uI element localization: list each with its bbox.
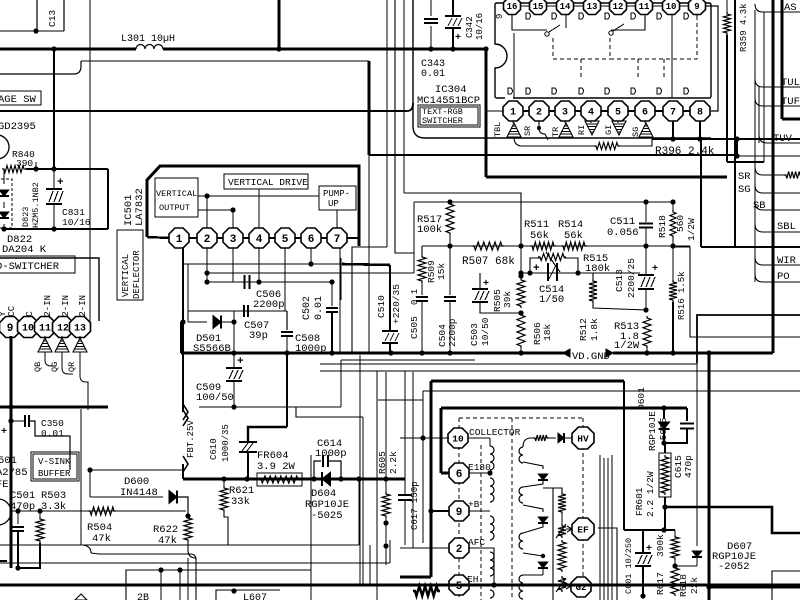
wire - y=400 stub bbox=[378, 399, 423, 401]
resistor R507 68k bbox=[472, 242, 504, 250]
svg-text:C617 150p: C617 150p bbox=[410, 481, 420, 530]
svg-text:+: + bbox=[455, 33, 461, 44]
wire - y=470 FBT link bbox=[90, 469, 183, 471]
svg-text:R518: R518 bbox=[657, 215, 668, 238]
wire - x=737 link bbox=[736, 139, 738, 156]
wire - pin9 to pin8 route x=718 bbox=[705, 6, 718, 111]
svg-text:9: 9 bbox=[456, 507, 463, 519]
wire - main +B bus y=49 bbox=[0, 48, 136, 51]
focus resistor chain upper bbox=[558, 492, 566, 514]
junction dot R513 top bbox=[643, 307, 648, 312]
svg-text:2.2k: 2.2k bbox=[388, 451, 399, 474]
capacitor C601 10/250 electrolytic bbox=[642, 530, 644, 552]
wire - IC304 top pin row bbox=[504, 5, 705, 7]
capacitor C506 2200p bbox=[244, 275, 246, 289]
capacitor C342 10/16 electrolytic bbox=[452, 0, 454, 15]
IC304 pin 4 (bottom) bbox=[581, 101, 601, 121]
wire - IC304 bottom pin row bbox=[503, 110, 710, 112]
svg-text:12: 12 bbox=[57, 324, 69, 335]
junction dot D501 branch bbox=[180, 319, 185, 324]
svg-text:4: 4 bbox=[588, 108, 594, 119]
IC304 pin 8 (bottom) bbox=[690, 101, 710, 121]
svg-text:18k: 18k bbox=[542, 324, 553, 341]
svg-text:D601: D601 bbox=[636, 387, 647, 410]
wire - thick y=587 to right bbox=[709, 586, 800, 589]
IC304 pin 3 (bottom) bbox=[555, 101, 575, 121]
wire - thick y=247 to right edge bbox=[701, 246, 800, 248]
wire - feedback y=273 long bbox=[207, 272, 414, 274]
svg-text:EF: EF bbox=[577, 524, 589, 535]
svg-text:2: 2 bbox=[456, 544, 463, 556]
switch contact circles and levers inside IC304 bbox=[545, 32, 549, 36]
svg-text:+: + bbox=[1, 427, 7, 438]
svg-text:AGE SW: AGE SW bbox=[0, 94, 37, 106]
svg-text:390k: 390k bbox=[655, 534, 666, 557]
junction dot R507/R517 bbox=[447, 243, 452, 248]
trimmer R510 with C514 bbox=[530, 258, 540, 273]
amplifier triangle pin4 RI bbox=[590, 121, 592, 123]
wire - x=360 drop bbox=[359, 355, 361, 585]
wire - thick y=229 return bbox=[4, 228, 108, 230]
svg-text:16: 16 bbox=[507, 2, 518, 12]
svg-text:FE: FE bbox=[0, 479, 9, 491]
svg-text:TUV: TUV bbox=[773, 133, 793, 145]
svg-text:6: 6 bbox=[308, 234, 315, 246]
box V-SINK BUFFER bbox=[31, 452, 79, 481]
terminal G2 bbox=[571, 577, 591, 597]
net SG bbox=[755, 185, 800, 193]
svg-text:L607: L607 bbox=[243, 593, 267, 600]
net SB bbox=[755, 202, 800, 210]
capacitor C617 150p bbox=[404, 371, 406, 494]
wire - thick y=177 across bbox=[486, 176, 727, 179]
wire - thick corner x=782 / y=119 bbox=[781, 0, 784, 119]
svg-text:-5025: -5025 bbox=[311, 510, 343, 522]
svg-text:UP: UP bbox=[328, 199, 339, 209]
svg-text:0.1: 0.1 bbox=[410, 289, 420, 305]
svg-text:56k: 56k bbox=[564, 230, 583, 242]
wire - horizontal y=74 with curve join bbox=[0, 61, 81, 74]
svg-text:12: 12 bbox=[613, 2, 624, 12]
box VOLTAGE SW label bbox=[0, 91, 41, 105]
wire - focus pack left rail bbox=[543, 488, 553, 600]
wire - pin1 lead down to FBT node bbox=[182, 248, 184, 412]
svg-text:11: 11 bbox=[639, 2, 650, 12]
wire - y=282 net bbox=[207, 281, 332, 283]
resistor R622 47k bbox=[184, 516, 192, 542]
wire - R359 thick drop x=727 bbox=[726, 35, 728, 162]
svg-text:GD2395: GD2395 bbox=[0, 121, 36, 133]
svg-text:AS: AS bbox=[784, 2, 797, 14]
svg-text:33k: 33k bbox=[231, 496, 250, 508]
wire - corner x=772 y=571 bbox=[772, 571, 800, 600]
svg-text:C505: C505 bbox=[409, 316, 420, 339]
resistor R509 15k bbox=[421, 246, 423, 255]
wire - thick y=381 bbox=[431, 380, 624, 383]
svg-text:TBL: TBL bbox=[493, 122, 503, 137]
wire - y=360 line bbox=[341, 359, 475, 361]
svg-text:+: + bbox=[57, 177, 64, 189]
net TUL bbox=[755, 79, 800, 87]
IC501 body outline bbox=[147, 166, 359, 246]
wire - pin8 lead down x=701 bbox=[700, 139, 702, 247]
wire - box left edge x=188 bbox=[187, 264, 189, 322]
IC501 pin 7 bbox=[327, 228, 347, 248]
svg-text:10/16: 10/16 bbox=[475, 13, 485, 40]
amplifier triangle pin5 GI bbox=[617, 121, 619, 123]
wire - y=273 sub net bbox=[521, 272, 640, 274]
svg-text:COLLECTOR: COLLECTOR bbox=[469, 427, 521, 438]
T601 pin 9 bbox=[449, 501, 469, 521]
svg-text:RGP10JE: RGP10JE bbox=[647, 411, 658, 451]
svg-text:180k: 180k bbox=[585, 263, 610, 275]
wire - y=311 net bbox=[188, 310, 287, 312]
svg-text:100k: 100k bbox=[417, 224, 442, 236]
svg-text:15k: 15k bbox=[436, 263, 447, 280]
wire - stub to IC304 pin 1 bbox=[486, 110, 503, 112]
svg-text:2: 2 bbox=[536, 108, 542, 119]
svg-text:D-SWITCHER: D-SWITCHER bbox=[0, 261, 60, 273]
junction dot pin2 lead top bbox=[204, 193, 209, 198]
capacitor C510 +220/35 electrolytic bbox=[389, 265, 391, 330]
svg-text:R516 1.5k: R516 1.5k bbox=[677, 271, 687, 320]
svg-text:LA7832: LA7832 bbox=[134, 188, 146, 226]
svg-text:1/2W: 1/2W bbox=[686, 218, 697, 241]
junction dot pin4/C506 bbox=[256, 279, 261, 284]
wire - x=665 down to y=530 bbox=[664, 507, 666, 530]
svg-text:PUMP-: PUMP- bbox=[323, 189, 350, 199]
capacitor C507 39p bbox=[243, 305, 245, 317]
box D-SWITCHER label bbox=[0, 256, 75, 273]
junction dot pin3 lead top bbox=[230, 207, 235, 212]
wire - pin3 lead down bbox=[232, 248, 234, 282]
amplifier triangle under pin 13 bbox=[79, 336, 81, 338]
junction dot pin9/bus407 bbox=[8, 404, 13, 409]
pin function D glyphs top row bbox=[526, 13, 531, 19]
capacitor C509 100/50 bbox=[233, 353, 235, 367]
resistor R617 390k bbox=[674, 530, 676, 535]
svg-text:1000/35: 1000/35 bbox=[221, 424, 231, 462]
solid wires inside IC304 bbox=[513, 33, 515, 98]
svg-text:5: 5 bbox=[615, 108, 621, 119]
wire - y=528 corner x=617 bbox=[598, 528, 617, 600]
IC304 pin 11 (top) bbox=[643, 0, 645, 6]
capacitor C513 2200/25 electrolytic bbox=[645, 246, 647, 274]
wire - R517 to y=246 node bbox=[449, 235, 451, 246]
IC304 pin 15 (top) bbox=[537, 0, 539, 6]
wire - thick corner x=108 down bbox=[107, 169, 109, 229]
wire - x=234 from y=311 to ground bus bbox=[233, 311, 235, 353]
wire - thick bus y=407 bbox=[0, 406, 108, 409]
wire - pin1 line to bus corner bbox=[180, 322, 182, 353]
wire - pin7 lead down to ground bus bbox=[339, 248, 341, 353]
box VERTICAL DRIVE bbox=[224, 174, 308, 189]
wire - y=364 mid bbox=[320, 363, 697, 365]
IC501 pin 1 bbox=[169, 228, 189, 248]
resistor R505 39k bbox=[518, 273, 523, 278]
wire - VD.GND ground bus left part bbox=[181, 352, 564, 355]
pin function D glyphs bottom row bbox=[508, 88, 513, 94]
diode D607 RGP10JE-2052 bbox=[675, 565, 697, 567]
wire - x=341 riser bbox=[340, 360, 342, 407]
svg-text:GI: GI bbox=[604, 125, 614, 135]
svg-text:VERTICAL DRIVE: VERTICAL DRIVE bbox=[228, 177, 308, 188]
svg-text:3.9 2W: 3.9 2W bbox=[257, 461, 296, 473]
svg-text:+: + bbox=[237, 356, 244, 368]
svg-text:A2785: A2785 bbox=[0, 467, 28, 479]
svg-text:2B: 2B bbox=[137, 593, 149, 600]
wire - x=341 pin7 area vertical bbox=[340, 258, 342, 300]
dashed control lines inside IC304 bbox=[552, 38, 554, 59]
svg-text:2.2 1/2W: 2.2 1/2W bbox=[645, 471, 656, 517]
wire - x=423 drop bbox=[422, 391, 424, 543]
svg-text:R359 4.3k: R359 4.3k bbox=[739, 3, 749, 52]
IC501 pin 5 bbox=[275, 228, 295, 248]
wire - thick x=431 column down to y=577 bbox=[430, 450, 433, 577]
svg-text:SR: SR bbox=[738, 171, 751, 183]
IC pin 12 bbox=[53, 317, 74, 338]
svg-text:DA204 K: DA204 K bbox=[2, 244, 47, 256]
IC501 pin 4 bbox=[249, 228, 269, 248]
IC304 body outline with notch bbox=[495, 3, 711, 98]
amplifier triangle under pin 11 bbox=[44, 336, 46, 338]
svg-text:-2052: -2052 bbox=[718, 561, 750, 573]
resistor R513 1.8 1/2W bbox=[643, 316, 651, 348]
wire - horizontal y=111 bus bbox=[0, 110, 407, 112]
wire - thick x=441 down to pin6 bbox=[440, 408, 443, 473]
IC304 pin 14 (top) bbox=[564, 0, 566, 6]
svg-text:VD.GND: VD.GND bbox=[572, 351, 610, 363]
fusible resistor FR601 2.2 1/2W bbox=[664, 443, 666, 453]
svg-text:15: 15 bbox=[533, 2, 544, 12]
wire - s-curve y=553 line bbox=[83, 545, 91, 553]
net SBL bbox=[755, 224, 800, 232]
IC304 pin 13 (top) bbox=[591, 0, 593, 6]
IC501 pin 6 bbox=[301, 228, 321, 248]
IC pin 9 bbox=[0, 317, 21, 338]
IC304 pin 10 (top) bbox=[670, 0, 672, 6]
svg-text:R512: R512 bbox=[578, 318, 589, 341]
net label VD.GND with arrows bbox=[563, 349, 570, 357]
IC304 pin 7 (bottom) bbox=[663, 101, 683, 121]
IC304 pin 6 (bottom) bbox=[635, 101, 655, 121]
T601 pin 2 bbox=[449, 538, 469, 558]
svg-text:R507 68k: R507 68k bbox=[462, 256, 515, 268]
wire - y=546 left wire to pin2 bbox=[400, 546, 449, 548]
svg-text:+: + bbox=[483, 279, 489, 290]
svg-text:56k: 56k bbox=[530, 230, 549, 242]
IC304 pin 5 (bottom) bbox=[608, 101, 628, 121]
box PUMP-UP bbox=[319, 186, 356, 210]
wire - pin3 lead up bbox=[232, 210, 234, 228]
wire - x=697 from y=363 to D607 bbox=[696, 363, 698, 546]
svg-text:SBL: SBL bbox=[777, 221, 796, 233]
wire - long vertical x=90 bbox=[89, 0, 91, 322]
svg-text:1: 1 bbox=[176, 234, 183, 246]
svg-text:SR: SR bbox=[523, 126, 533, 136]
wire - VD.GND bus right part bbox=[613, 352, 773, 355]
IC304 outer block boundary bbox=[413, 0, 711, 138]
IC pin 13 bbox=[70, 317, 91, 338]
junction dot y246 x521 bbox=[518, 243, 523, 248]
wire - pin5 lead down bbox=[284, 248, 286, 311]
svg-text:BUFFER: BUFFER bbox=[38, 469, 71, 479]
capacitor C350 0.01 bbox=[8, 418, 13, 423]
junction dot R517 top bbox=[447, 199, 452, 204]
svg-text:PO: PO bbox=[777, 271, 790, 283]
svg-text:11: 11 bbox=[39, 324, 51, 335]
IC pin 11 bbox=[35, 317, 56, 338]
wire - thick y=530 bbox=[624, 529, 675, 531]
svg-text:10: 10 bbox=[452, 433, 464, 444]
svg-text:7: 7 bbox=[670, 108, 676, 119]
resistor R504 47k bbox=[88, 507, 116, 515]
inductor L607 box bottom bbox=[216, 590, 280, 600]
IC304 pin 12 (top) bbox=[617, 0, 619, 6]
svg-text:QG: QG bbox=[50, 362, 60, 372]
junction dots on +B bus bbox=[51, 46, 56, 51]
svg-text:7: 7 bbox=[334, 234, 341, 246]
IC304 pin 2 (bottom) bbox=[529, 101, 549, 121]
wire - y=162 jog bbox=[727, 161, 764, 163]
wire - pin6 lead down bbox=[310, 248, 312, 264]
wire - FBT.25V feed y=479 thick bbox=[183, 478, 405, 481]
svg-text:2200/25: 2200/25 bbox=[626, 258, 637, 298]
resistor R511 56k bbox=[530, 242, 556, 250]
wire - y=193 across bbox=[404, 193, 521, 246]
wire - vertical output to pin3 y=210 bbox=[198, 209, 233, 211]
svg-text:RI: RI bbox=[577, 125, 587, 135]
svg-text:D823: D823 bbox=[21, 207, 31, 227]
svg-text:5: 5 bbox=[456, 581, 463, 593]
svg-text:FBT.25V: FBT.25V bbox=[186, 420, 196, 458]
svg-text:13: 13 bbox=[587, 2, 598, 12]
IC pin 10 bbox=[18, 317, 39, 338]
svg-text:-5025: -5025 bbox=[658, 417, 669, 446]
svg-text:0.01: 0.01 bbox=[314, 296, 325, 320]
wire - R840 node thick y=169 bbox=[26, 168, 108, 170]
wire - bottom thin bus y=563 bbox=[0, 562, 390, 564]
svg-text:C503: C503 bbox=[469, 323, 480, 346]
svg-text:6: 6 bbox=[642, 108, 648, 119]
T601 pin 6 bbox=[448, 472, 450, 474]
capacitor C508 1000p bbox=[286, 311, 288, 330]
capacitor C343 0.01 bbox=[430, 0, 432, 16]
wire - IC501 pin row bbox=[170, 237, 359, 239]
svg-text:470p: 470p bbox=[683, 455, 694, 478]
wire - bottom right verticals x=600..614 bbox=[599, 455, 601, 600]
wire - thick x=624 down bbox=[623, 381, 625, 530]
wire - x=521 down to y=273 bbox=[520, 246, 522, 276]
svg-text:VERTICAL: VERTICAL bbox=[121, 254, 131, 297]
resistor R517 100k bbox=[446, 202, 454, 235]
capacitor C502 0.01 bbox=[329, 279, 334, 284]
svg-text:14: 14 bbox=[560, 2, 571, 12]
capacitor C831 10/16 electrolytic bbox=[46, 188, 62, 190]
wire - bottom bus y=570 bbox=[126, 570, 311, 600]
transformer T601 dashed outline bbox=[459, 417, 583, 419]
ground symbol bottom bbox=[75, 594, 87, 600]
svg-text:10: 10 bbox=[22, 324, 34, 335]
junction dot on C13x wire bbox=[33, 28, 38, 33]
wire - vertical x=54 from bus down to R840 node bbox=[53, 49, 55, 169]
terminal HV bbox=[572, 427, 594, 449]
amplifier triangle under pin 12 bbox=[61, 336, 63, 338]
svg-text:10: 10 bbox=[666, 2, 677, 12]
resistor R514 56k bbox=[561, 242, 587, 250]
svg-text:1/2W: 1/2W bbox=[614, 340, 640, 352]
wire - pin4 lead down bbox=[258, 248, 260, 282]
svg-text:501: 501 bbox=[0, 455, 17, 467]
amplifier triangle pin3 TR bbox=[564, 121, 566, 123]
wire - x=311 drop bbox=[310, 455, 312, 600]
svg-text:HZM5.1NB2: HZM5.1NB2 bbox=[31, 182, 41, 228]
wire - x=369 long vertical bbox=[368, 155, 370, 353]
resistor bottom edge thick zigzag bbox=[413, 586, 440, 596]
svg-text:0.056: 0.056 bbox=[607, 227, 639, 239]
wire - y=371 long bbox=[320, 370, 800, 372]
wire - med corner x=699 y=315 bbox=[697, 315, 800, 363]
wire - thick ground return y=155 bbox=[369, 154, 737, 156]
svg-text:9: 9 bbox=[495, 14, 505, 19]
diode D604 RGP10JE-5025 bbox=[322, 472, 331, 486]
wire - x=359 drop bbox=[358, 479, 360, 545]
resistor R396 2.4k bbox=[514, 137, 596, 146]
diode D601 RGP10JE-5025 bbox=[663, 408, 665, 419]
svg-text:TUL: TUL bbox=[781, 77, 800, 89]
wire - bus x=759 bbox=[758, 87, 760, 143]
svg-text:1: 1 bbox=[510, 108, 516, 119]
wire - bottom thick bus y=585 bbox=[0, 583, 800, 586]
T601 pin 10 bbox=[400, 437, 448, 439]
wire - stub left of C501 bottom bbox=[0, 560, 7, 562]
svg-text:2: 2 bbox=[204, 234, 211, 246]
svg-text:HV: HV bbox=[577, 433, 589, 444]
svg-text:100/50: 100/50 bbox=[196, 392, 234, 404]
wire - +B bus continues to IC304 area bbox=[163, 48, 486, 51]
box VERTICAL OUTPUT bbox=[155, 178, 198, 217]
svg-text:WIR: WIR bbox=[777, 255, 797, 267]
junction dots on ground bus bbox=[231, 350, 236, 355]
svg-text:SWITCHER: SWITCHER bbox=[422, 116, 463, 126]
resistor R506 18k bbox=[517, 313, 525, 348]
wire - thick x=773 right bus bbox=[772, 0, 775, 353]
wire - y=407 routing bbox=[199, 406, 341, 408]
wire - x=395 long vertical to y=253 bbox=[395, 0, 414, 253]
wire - x=404 long vertical bbox=[403, 0, 405, 193]
wire - x=363 drop bbox=[362, 417, 364, 585]
svg-text:E180: E180 bbox=[468, 462, 491, 473]
net SR with resistor bbox=[755, 167, 786, 175]
wire - bottom verticals bbox=[369, 545, 371, 585]
svg-text:13: 13 bbox=[74, 324, 86, 335]
svg-text:+220/35: +220/35 bbox=[391, 284, 402, 324]
capacitor C504 2200p bbox=[449, 246, 451, 295]
box VERTICAL DEFLECTOR bbox=[117, 230, 143, 300]
transistor Q501 body bbox=[0, 499, 11, 525]
net PO bbox=[755, 274, 800, 282]
svg-text:8: 8 bbox=[697, 108, 703, 119]
svg-text:FR601: FR601 bbox=[634, 487, 645, 516]
net WIR bbox=[755, 257, 800, 265]
svg-text:47k: 47k bbox=[92, 533, 111, 545]
wire - pin7 lead up to PUMP-UP bbox=[336, 210, 338, 228]
wire - Q501 emitter row y=511 bbox=[11, 510, 186, 512]
resistor R503 3.3k bbox=[39, 511, 41, 517]
svg-text:TR: TR bbox=[551, 127, 561, 137]
svg-text:1.8k: 1.8k bbox=[589, 318, 600, 341]
junction dot pin6 on y=264 wire bbox=[308, 261, 313, 266]
